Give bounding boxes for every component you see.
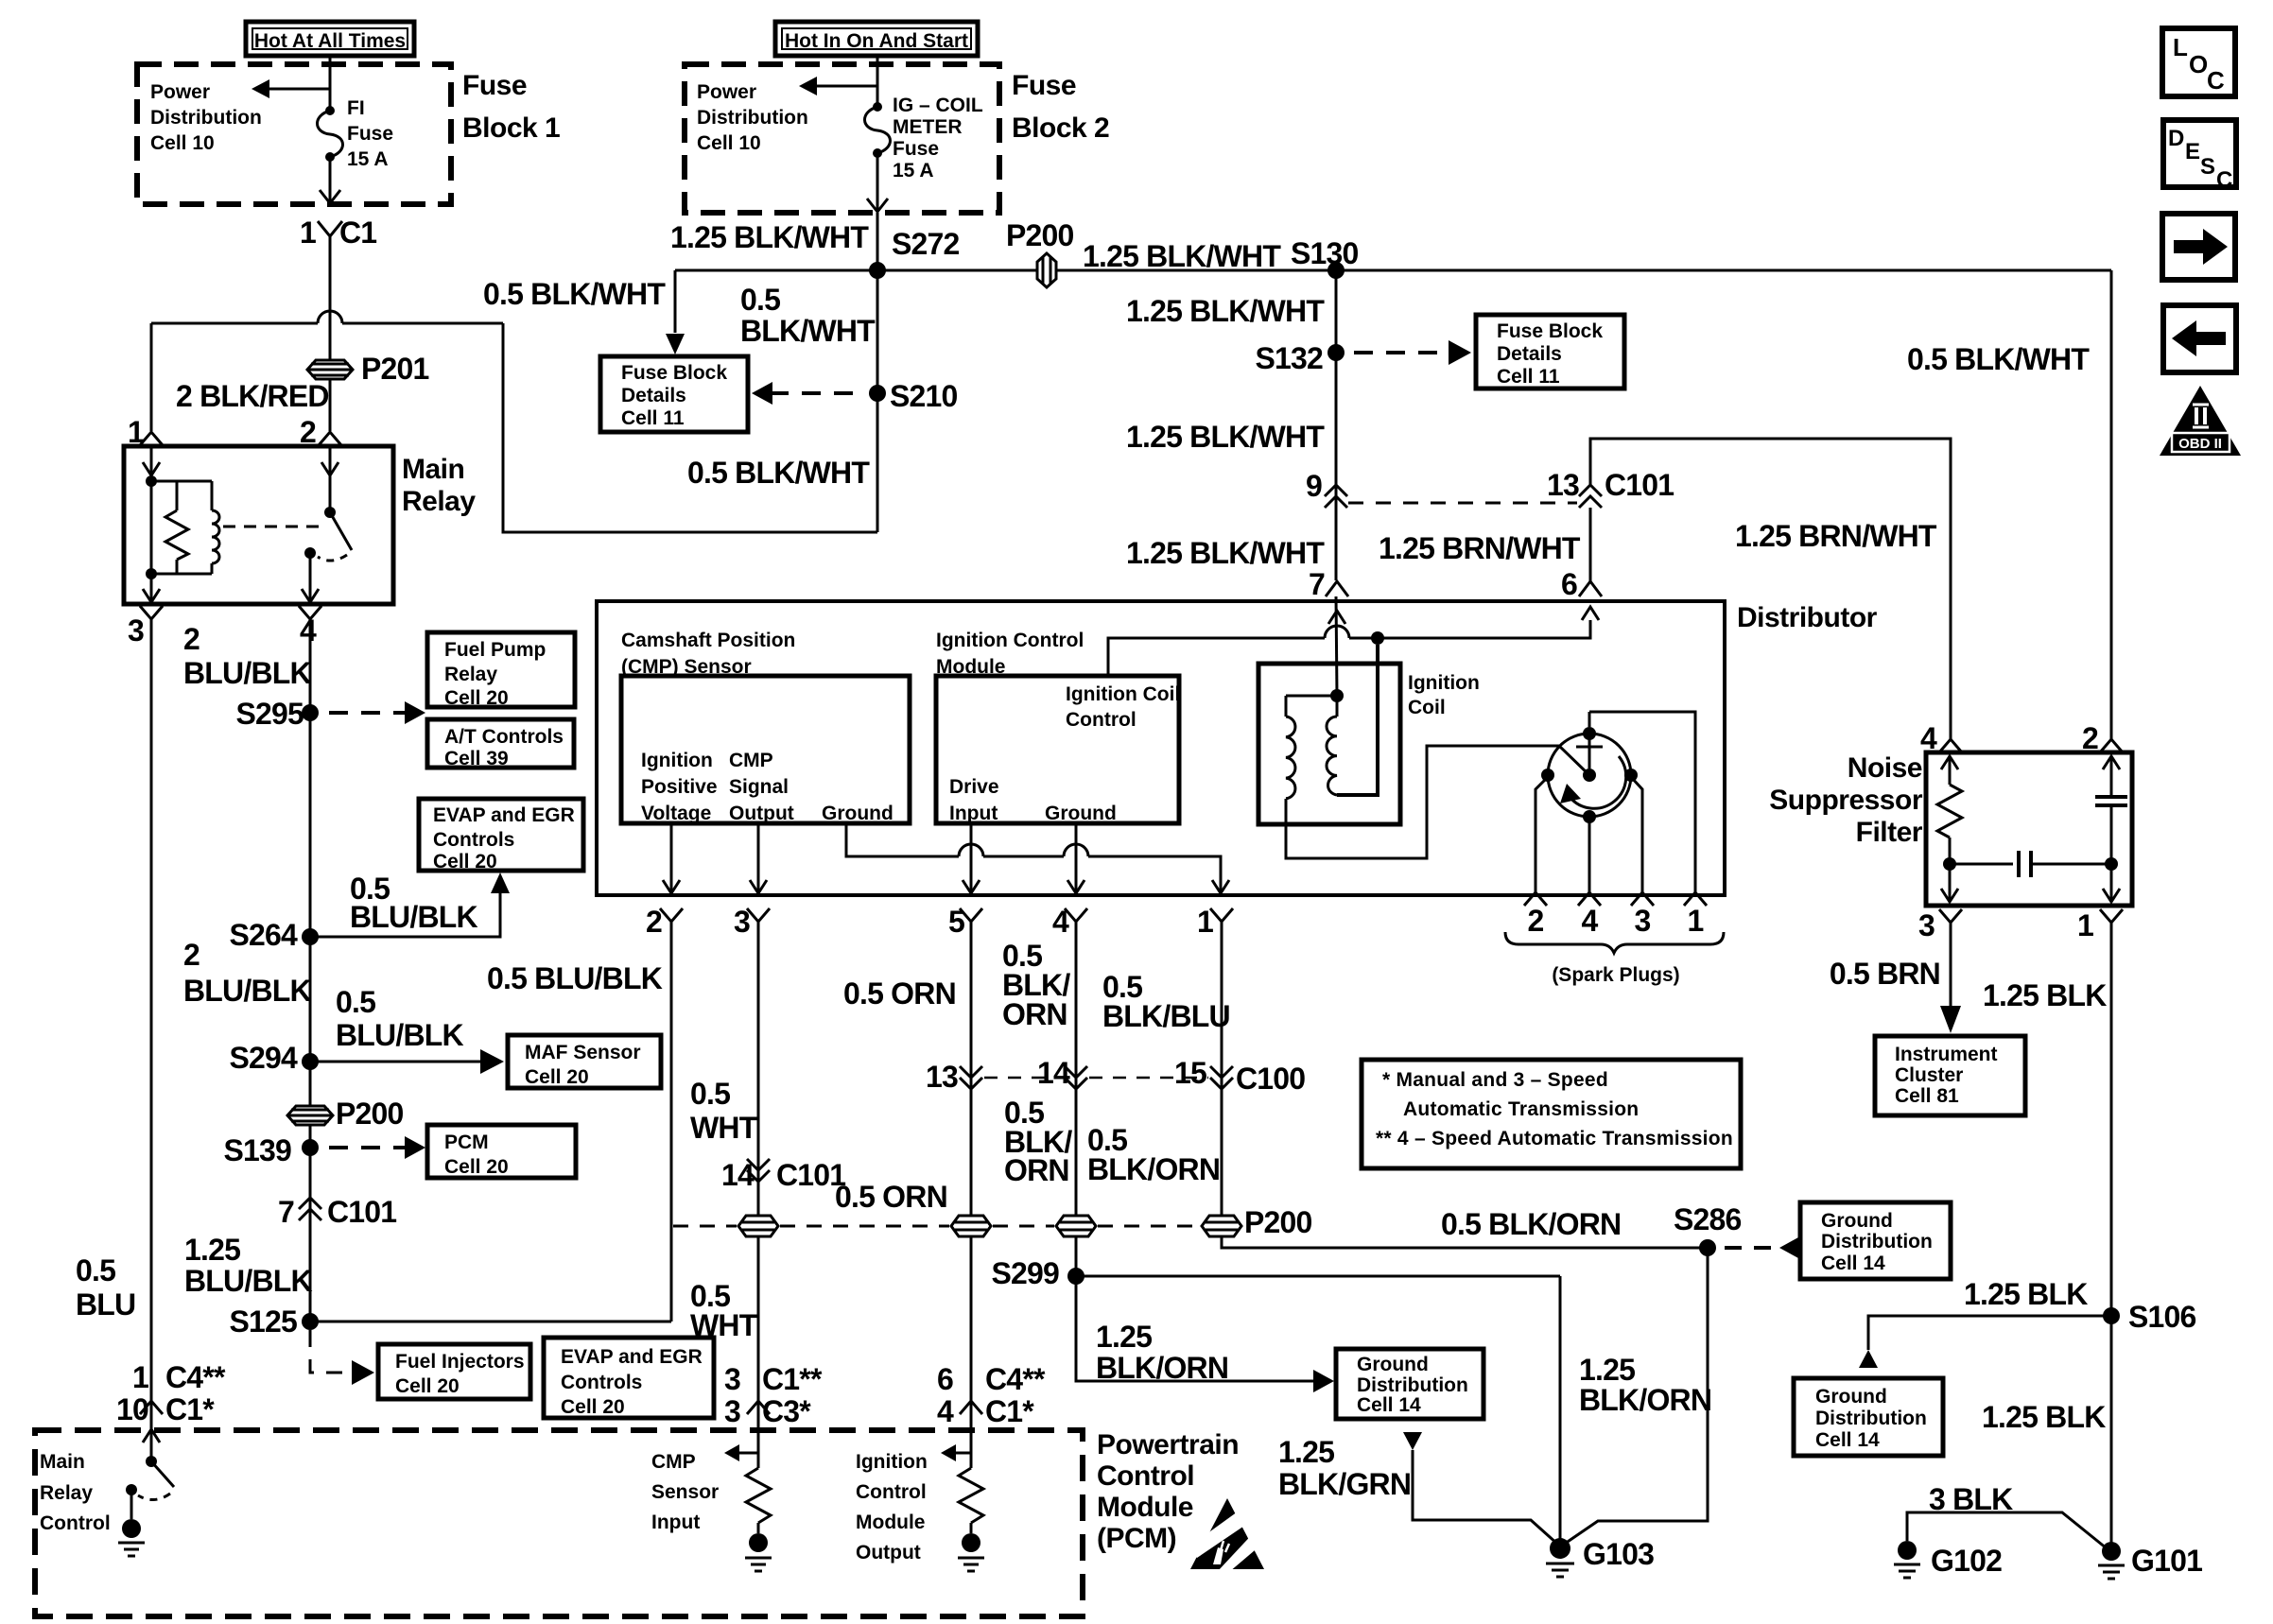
svg-text:Cell 10: Cell 10	[697, 132, 761, 154]
svg-text:G103: G103	[1583, 1537, 1654, 1571]
wire: fuse 2 output down with arrow	[876, 153, 879, 211]
svg-text:6: 6	[1561, 567, 1577, 601]
svg-text:15: 15	[1174, 1056, 1206, 1090]
svg-text:0.5: 0.5	[690, 1077, 730, 1111]
box: Ground Distribution Cell 14 (middle)	[1800, 1202, 1951, 1279]
svg-text:BLK/ORN: BLK/ORN	[1579, 1383, 1711, 1417]
svg-text:Module: Module	[856, 1512, 926, 1533]
svg-text:2: 2	[300, 415, 316, 449]
svg-text:S125: S125	[229, 1304, 297, 1339]
svg-text:Suppressor: Suppressor	[1769, 785, 1923, 816]
wire: feed arrow to Power Distribution (block 2)	[814, 85, 877, 88]
dashed link C100	[984, 1077, 1063, 1080]
wire from Hot In On And Start into Fuse Block 2	[876, 56, 879, 107]
dashed link C101 9 to 13	[1348, 502, 1577, 505]
svg-text:S130: S130	[1291, 236, 1359, 270]
svg-text:0.5 BLK/WHT: 0.5 BLK/WHT	[687, 456, 870, 490]
svg-text:Camshaft Position: Camshaft Position	[621, 630, 795, 651]
svg-text:14: 14	[1037, 1056, 1070, 1090]
CMP sensor box	[621, 676, 910, 823]
wire: S125 to distributor pin 2 wire	[310, 1321, 671, 1323]
wire: pin 1 down to G101	[2110, 923, 2113, 1551]
svg-text:Power: Power	[697, 81, 756, 103]
svg-text:WHT: WHT	[690, 1308, 758, 1342]
wire: branch right side down and across to S210 leg	[503, 323, 877, 532]
svg-text:Main: Main	[402, 454, 464, 485]
relay coil	[211, 481, 214, 510]
svg-text:Cell 11: Cell 11	[1497, 366, 1560, 388]
svg-text:7: 7	[1309, 567, 1325, 601]
resistor (ICM output)	[970, 1453, 973, 1468]
svg-text:Sensor: Sensor	[651, 1481, 719, 1503]
rotor rotation arrow	[1570, 756, 1626, 808]
wire: secondary to rotor	[1286, 746, 1559, 858]
svg-text:2: 2	[183, 938, 200, 972]
svg-text:1: 1	[300, 216, 316, 250]
relay mechanical link (dashed)	[223, 526, 320, 528]
connector P200 row symbol (pin 1 wire)	[1202, 1216, 1241, 1236]
svg-text:Control: Control	[1097, 1460, 1194, 1492]
wire: S299 branch down to Ground Distribution	[1076, 1276, 1319, 1381]
svg-text:C1: C1	[339, 216, 376, 250]
wire: S294 to MAF Sensor box	[310, 1061, 482, 1063]
wire: S125 dashed to Fuel Injectors	[310, 1330, 342, 1373]
wire: S286 down to G103 run	[1562, 1248, 1708, 1546]
svg-text:7: 7	[278, 1195, 294, 1229]
arrow: CMP sensor input tap	[737, 1452, 758, 1455]
fuse FI 15A symbol	[325, 106, 335, 115]
svg-text:Cell 14: Cell 14	[1815, 1429, 1880, 1451]
box: Instrument Cluster Cell 81	[1875, 1036, 2025, 1115]
box: A/T Controls Cell 39	[427, 719, 574, 768]
svg-text:S272: S272	[892, 227, 960, 261]
svg-text:Hot In On And Start: Hot In On And Start	[785, 30, 968, 52]
svg-text:** 4 – Speed Automatic Transmi: ** 4 – Speed Automatic Transmission	[1376, 1128, 1733, 1149]
svg-text:Cell 81: Cell 81	[1895, 1085, 1959, 1107]
box: Fuel Pump Relay Cell 20	[427, 632, 575, 707]
svg-text:BLU/BLK: BLU/BLK	[184, 1264, 313, 1298]
icon: left arrow box	[2163, 305, 2236, 372]
svg-text:Distribution: Distribution	[1815, 1408, 1927, 1429]
svg-text:Module: Module	[1097, 1492, 1193, 1523]
connector P200 row symbol (pin 5 wire)	[951, 1216, 991, 1236]
svg-text:Drive: Drive	[949, 776, 999, 798]
bus hops over drive input wire	[959, 844, 983, 856]
svg-text:BLU/BLK: BLU/BLK	[350, 900, 478, 934]
svg-text:Voltage: Voltage	[641, 803, 711, 824]
svg-text:15 A: 15 A	[893, 160, 934, 181]
distributor rotor	[1548, 734, 1631, 817]
svg-text:Fuel Pump: Fuel Pump	[444, 639, 546, 661]
svg-text:G101: G101	[2131, 1544, 2202, 1578]
svg-text:C101: C101	[327, 1195, 396, 1229]
node: ignition coil B+ junction	[1330, 689, 1344, 702]
wire: relay coil feed (pin 1 internal)	[150, 446, 153, 574]
svg-text:1.25 BRN/WHT: 1.25 BRN/WHT	[1735, 519, 1937, 553]
svg-text:Powertrain: Powertrain	[1097, 1429, 1239, 1460]
svg-text:D: D	[2168, 126, 2184, 151]
svg-text:Input: Input	[949, 803, 998, 824]
svg-text:Cell 14: Cell 14	[1821, 1253, 1885, 1274]
svg-text:BLU/BLK: BLU/BLK	[336, 1018, 464, 1052]
svg-text:Automatic Transmission: Automatic Transmission	[1403, 1098, 1639, 1120]
svg-text:MAF Sensor: MAF Sensor	[525, 1042, 641, 1063]
wire: branch down to relay pin 1	[150, 323, 153, 431]
wire from Hot At All Times into Fuse Block 1	[329, 56, 332, 111]
svg-text:S295: S295	[235, 697, 304, 731]
wire: S132 dashed arrow to Fuse Block Details (right)	[1354, 351, 1441, 354]
noise filter resistor leg	[1949, 756, 1952, 785]
svg-text:WHT: WHT	[690, 1111, 758, 1145]
svg-text:0.5: 0.5	[740, 283, 780, 317]
noise filter cross capacitor	[1950, 863, 2013, 866]
svg-text:0.5 BLK/WHT: 0.5 BLK/WHT	[1907, 342, 2090, 376]
svg-text:0.5 BLU/BLK: 0.5 BLU/BLK	[487, 961, 663, 995]
wire: fuse block 2 down through S272 S210	[876, 213, 879, 532]
svg-text:Cell 20: Cell 20	[444, 1156, 509, 1178]
svg-text:Cell 39: Cell 39	[444, 748, 509, 769]
icon: OBD II triangle	[2160, 386, 2241, 456]
svg-text:BLK/ORN: BLK/ORN	[1087, 1152, 1220, 1186]
svg-text:P200: P200	[1006, 218, 1074, 252]
svg-text:C: C	[2207, 66, 2225, 95]
wire: fuse output down with arrow	[329, 157, 332, 202]
svg-text:Cell 20: Cell 20	[444, 687, 509, 709]
box: Fuse Block Details Cell 11 (right)	[1476, 315, 1624, 389]
svg-text:1.25 BLK: 1.25 BLK	[1982, 1400, 2106, 1434]
ignition control module box	[936, 676, 1179, 823]
CMP ground wire to internal bus	[846, 823, 959, 856]
spark plug pin 3	[1631, 892, 1654, 906]
ground G103	[1550, 1538, 1570, 1559]
svg-text:Ground: Ground	[1357, 1354, 1429, 1375]
svg-text:L: L	[2173, 33, 2188, 61]
wire: S299 right to G103 drop	[1076, 1275, 1560, 1278]
wire: pin 3 down to PCM	[757, 922, 760, 1453]
ESD sensitive symbol	[1190, 1498, 1264, 1569]
svg-text:IG – COIL: IG – COIL	[893, 95, 983, 116]
wire: S130 down to distributor pin 7	[1335, 270, 1338, 580]
connector P201	[307, 360, 353, 379]
box: PCM Cell 20	[427, 1125, 576, 1178]
svg-text:Details: Details	[1497, 343, 1562, 365]
svg-text:Signal: Signal	[729, 776, 789, 798]
connector P200 (on 1.25 BLK/WHT bus)	[1037, 253, 1056, 287]
wire: S130 bus right end down to noise filter pin 2	[2110, 270, 2113, 740]
svg-text:Fuse: Fuse	[347, 123, 393, 145]
svg-text:OBD II: OBD II	[2178, 436, 2222, 452]
svg-text:15 A: 15 A	[347, 148, 389, 170]
svg-text:0.5 ORN: 0.5 ORN	[843, 976, 956, 1011]
dashed link P200 row	[673, 1225, 737, 1228]
svg-text:S294: S294	[229, 1041, 298, 1075]
connector P200 row symbol (pin 3 wire)	[738, 1216, 778, 1236]
svg-text:0.5: 0.5	[336, 985, 375, 1019]
svg-text:S210: S210	[890, 379, 958, 413]
svg-text:13: 13	[926, 1060, 958, 1094]
svg-text:ORN: ORN	[1004, 1153, 1069, 1187]
svg-text:Hot At All Times: Hot At All Times	[254, 30, 406, 52]
svg-text:EVAP and EGR: EVAP and EGR	[433, 804, 575, 826]
svg-text:C3*: C3*	[762, 1394, 811, 1428]
svg-text:1.25 BLK/WHT: 1.25 BLK/WHT	[1083, 239, 1281, 273]
svg-text:4: 4	[937, 1394, 954, 1428]
svg-text:3: 3	[128, 613, 144, 648]
svg-text:Output: Output	[729, 803, 794, 824]
icon: LOC box	[2162, 28, 2235, 96]
spark plug pin 1	[1684, 892, 1707, 906]
wire: ignition coil control line (hops over pin 7 wire)	[1108, 638, 1325, 676]
svg-text:1.25 BLK: 1.25 BLK	[1964, 1277, 2088, 1311]
box: Ground Distribution Cell 14 (left)	[1336, 1349, 1484, 1419]
svg-text:Fuse Block: Fuse Block	[621, 362, 727, 384]
svg-text:S132: S132	[1255, 341, 1323, 375]
wire: rotor contacts to spark plug pins	[1588, 712, 1591, 727]
wire: C1 down to P201 and relay pin 2	[329, 236, 332, 431]
svg-text:Cluster: Cluster	[1895, 1064, 1963, 1086]
svg-text:Control: Control	[1066, 709, 1136, 731]
svg-text:Distribution: Distribution	[1821, 1231, 1933, 1253]
svg-text:Fuse: Fuse	[462, 70, 527, 101]
svg-text:S264: S264	[229, 918, 298, 952]
svg-text:Cell 11: Cell 11	[621, 407, 685, 429]
svg-text:Instrument: Instrument	[1895, 1044, 1998, 1065]
svg-text:13: 13	[1547, 468, 1579, 502]
svg-text:Ignition: Ignition	[641, 750, 713, 771]
svg-text:C1*: C1*	[165, 1392, 215, 1426]
svg-text:EVAP and EGR: EVAP and EGR	[561, 1346, 703, 1368]
wire: Ground Distribution down to G103	[1403, 1432, 1422, 1450]
svg-text:1.25: 1.25	[184, 1233, 240, 1267]
svg-text:METER: METER	[893, 116, 963, 138]
node: Hot In On And Start label box	[775, 22, 978, 56]
svg-text:0.5 BRN: 0.5 BRN	[1830, 957, 1940, 991]
svg-text:C4**: C4**	[985, 1362, 1046, 1396]
wire: main 1.25 BLK/WHT horizontal bus	[675, 269, 2111, 272]
wire: G102 to G101 3 BLK	[1907, 1512, 2107, 1548]
coil primary winding	[1336, 696, 1339, 717]
spark plug pin 4	[1578, 892, 1601, 906]
wire: S299 drop to G103	[1559, 1276, 1562, 1543]
svg-text:C1**: C1**	[762, 1362, 823, 1396]
svg-text:C101: C101	[1605, 468, 1674, 502]
wire: pin 2 down to S125	[670, 922, 673, 1322]
svg-text:0.5 ORN: 0.5 ORN	[835, 1180, 947, 1214]
svg-text:C1*: C1*	[985, 1394, 1034, 1428]
svg-text:BLK/GRN: BLK/GRN	[1278, 1467, 1411, 1501]
svg-text:BLK/BLU: BLK/BLU	[1102, 999, 1230, 1033]
svg-text:E: E	[2185, 139, 2200, 164]
svg-text:6: 6	[937, 1362, 953, 1396]
svg-text:1.25: 1.25	[1096, 1320, 1152, 1354]
svg-text:4: 4	[1582, 904, 1599, 938]
svg-text:Distributor: Distributor	[1737, 602, 1878, 633]
box: Ground Distribution Cell 14 (bottom)	[1794, 1378, 1943, 1456]
PCM dashed box	[35, 1430, 1083, 1616]
svg-text:1.25 BLK: 1.25 BLK	[1983, 978, 2107, 1012]
svg-text:Main: Main	[40, 1451, 85, 1473]
svg-text:Cell 20: Cell 20	[433, 851, 497, 872]
svg-text:G102: G102	[1931, 1544, 2002, 1578]
ignition coil box	[1258, 664, 1400, 824]
svg-text:Ground: Ground	[1045, 803, 1117, 824]
spark plug pin 2	[1524, 892, 1547, 906]
noise filter capacitor leg	[2110, 756, 2113, 797]
wire: C101 13 up and over to noise filter pin 4	[1590, 439, 1951, 740]
svg-text:Distribution: Distribution	[1357, 1374, 1468, 1396]
icon: right arrow box	[2162, 214, 2235, 280]
connector P200 row symbol (pin 4 wire)	[1056, 1216, 1096, 1236]
svg-text:Ignition: Ignition	[856, 1451, 928, 1473]
svg-text:1.25 BLK/WHT: 1.25 BLK/WHT	[1126, 536, 1325, 570]
svg-text:FI: FI	[347, 97, 365, 119]
svg-text:C100: C100	[1236, 1062, 1305, 1096]
wire: pin 4 down to S299	[1075, 922, 1078, 1276]
node: Hot At All Times label box	[246, 22, 414, 56]
svg-text:1: 1	[132, 1360, 148, 1394]
svg-text:PCM: PCM	[444, 1132, 489, 1153]
svg-text:Cell 20: Cell 20	[525, 1066, 589, 1088]
svg-text:Control: Control	[856, 1481, 927, 1503]
svg-text:1.25: 1.25	[1278, 1435, 1334, 1469]
svg-text:1.25 BRN/WHT: 1.25 BRN/WHT	[1379, 531, 1581, 565]
svg-text:(Spark Plugs): (Spark Plugs)	[1552, 964, 1679, 986]
coil secondary winding	[1286, 695, 1337, 698]
svg-text:CMP: CMP	[651, 1451, 696, 1473]
box: EVAP and EGR Controls Cell 20 (upper)	[419, 799, 583, 871]
svg-text:1: 1	[1688, 904, 1704, 938]
wire: S264 to EVAP and EGR Controls box	[310, 892, 500, 937]
svg-text:Fuse Block: Fuse Block	[1497, 320, 1603, 342]
svg-text:Relay: Relay	[40, 1482, 93, 1504]
svg-text:1.25: 1.25	[1579, 1353, 1635, 1387]
Fuse Block 1 dashed box	[137, 64, 451, 204]
ICM drive input wire	[970, 823, 973, 893]
splice S106	[2103, 1307, 2120, 1324]
svg-text:Fuse: Fuse	[1012, 70, 1076, 101]
svg-text:Positive: Positive	[641, 776, 718, 798]
fuse IG-COIL METER 15A symbol	[873, 102, 882, 112]
svg-text:3: 3	[724, 1362, 740, 1396]
svg-text:Ground: Ground	[1821, 1210, 1893, 1232]
wire: pin 5 down to PCM	[970, 922, 973, 1453]
ground bus to pin 1	[1088, 856, 1221, 893]
svg-text:A/T Controls: A/T Controls	[444, 726, 564, 748]
svg-text:Ground: Ground	[1815, 1386, 1887, 1408]
wire: pin 6 up to C101 13	[1589, 508, 1592, 581]
svg-text:CMP: CMP	[729, 750, 773, 771]
ICM ground wire	[1075, 823, 1078, 893]
svg-text:Distribution: Distribution	[150, 107, 262, 129]
wire: relay pin 4 down the splice column	[309, 619, 312, 1322]
box: Fuel Injectors Cell 20	[378, 1344, 530, 1399]
svg-text:Coil: Coil	[1408, 697, 1446, 718]
dashed arrow S286 to Ground Distribution	[1725, 1246, 1778, 1250]
svg-text:Ignition Control: Ignition Control	[936, 630, 1084, 651]
box: Fuse Block Details Cell 11 (left)	[600, 356, 748, 432]
ground (PCM internal, main relay control)	[130, 1490, 133, 1519]
wire: feed arrow to Power Distribution (block 1)	[267, 88, 330, 91]
wire: pin 7 feed into ignition coil	[1336, 596, 1337, 696]
svg-text:Cell 14: Cell 14	[1357, 1394, 1421, 1416]
svg-text:P200: P200	[336, 1097, 404, 1131]
relay internal resistor	[151, 480, 212, 483]
connector P200 (splice column)	[287, 1106, 333, 1125]
svg-text:S139: S139	[223, 1133, 291, 1167]
svg-text:0.5 BLK/ORN: 0.5 BLK/ORN	[1441, 1207, 1621, 1241]
svg-text:Relay: Relay	[444, 664, 497, 685]
svg-text:3: 3	[1635, 904, 1651, 938]
relay switch (pin 2 to pin 4)	[329, 446, 332, 512]
svg-text:S106: S106	[2128, 1300, 2196, 1334]
box: MAF Sensor Cell 20	[508, 1035, 661, 1088]
box: EVAP and EGR Controls Cell 20 (lower)	[544, 1338, 714, 1418]
svg-text:Filter: Filter	[1856, 817, 1923, 848]
svg-text:Ignition: Ignition	[1408, 672, 1480, 694]
svg-text:BLK/WHT: BLK/WHT	[740, 314, 876, 348]
svg-text:9: 9	[1306, 469, 1322, 503]
svg-text:S286: S286	[1674, 1202, 1742, 1236]
node: coil control junction	[1371, 631, 1384, 645]
svg-text:Details: Details	[621, 385, 686, 406]
svg-text:Fuse: Fuse	[893, 138, 939, 160]
svg-text:3: 3	[724, 1394, 740, 1428]
svg-text:C4**: C4**	[165, 1360, 226, 1394]
note box: transmission footnotes	[1362, 1060, 1741, 1168]
svg-text:O: O	[2189, 50, 2208, 78]
arrow: ICM output tap	[953, 1452, 971, 1455]
svg-text:* Manual and 3 – Speed: * Manual and 3 – Speed	[1382, 1069, 1608, 1091]
brace (spark plugs)	[1505, 932, 1724, 953]
icon: DESC box	[2163, 120, 2236, 187]
svg-text:Distribution: Distribution	[697, 107, 808, 129]
wire: pin 3 down to instrument cluster	[1950, 923, 1952, 1008]
svg-text:Controls: Controls	[561, 1372, 642, 1393]
svg-text:Input: Input	[651, 1512, 700, 1533]
svg-text:P201: P201	[361, 352, 429, 386]
wire: relay pin 3 down to PCM pin 10	[150, 619, 153, 1401]
svg-text:C: C	[2216, 167, 2232, 193]
svg-text:2: 2	[183, 622, 200, 656]
Fuse Block 2 dashed box	[685, 64, 999, 213]
wire: pin 1 down to S286 line	[1222, 922, 1708, 1248]
svg-text:BLK/ORN: BLK/ORN	[1096, 1351, 1228, 1385]
CMP sensor output wires with arrows	[670, 823, 673, 893]
ground (CMP input)	[749, 1533, 768, 1552]
svg-text:0.5: 0.5	[76, 1253, 115, 1287]
wire: S106 left and down to Ground Distribution	[1868, 1316, 2111, 1350]
svg-text:Fuel Injectors: Fuel Injectors	[395, 1351, 525, 1373]
noise suppressor filter box	[1926, 752, 2132, 906]
svg-text:S: S	[2200, 154, 2215, 180]
resistor (CMP sensor input pull)	[757, 1453, 760, 1468]
svg-text:2: 2	[1528, 904, 1544, 938]
svg-text:3: 3	[1918, 908, 1935, 942]
svg-text:Block 1: Block 1	[462, 112, 560, 144]
svg-text:1.25 BLK/WHT: 1.25 BLK/WHT	[1126, 294, 1325, 328]
svg-text:1.25 BLK/WHT: 1.25 BLK/WHT	[670, 220, 869, 254]
svg-text:S299: S299	[991, 1256, 1059, 1290]
svg-text:BLU: BLU	[76, 1287, 135, 1322]
ground G102	[1898, 1541, 1917, 1560]
switch: main relay control driver	[150, 1401, 153, 1461]
wire: S210 dashed arrow to Fuse Block Details	[770, 391, 860, 395]
svg-text:Cell 20: Cell 20	[561, 1396, 625, 1418]
svg-text:ORN: ORN	[1002, 997, 1067, 1031]
ground (ICM output)	[962, 1533, 980, 1552]
distributor outer box	[597, 601, 1725, 895]
svg-text:Ignition Coil: Ignition Coil	[1066, 683, 1180, 705]
